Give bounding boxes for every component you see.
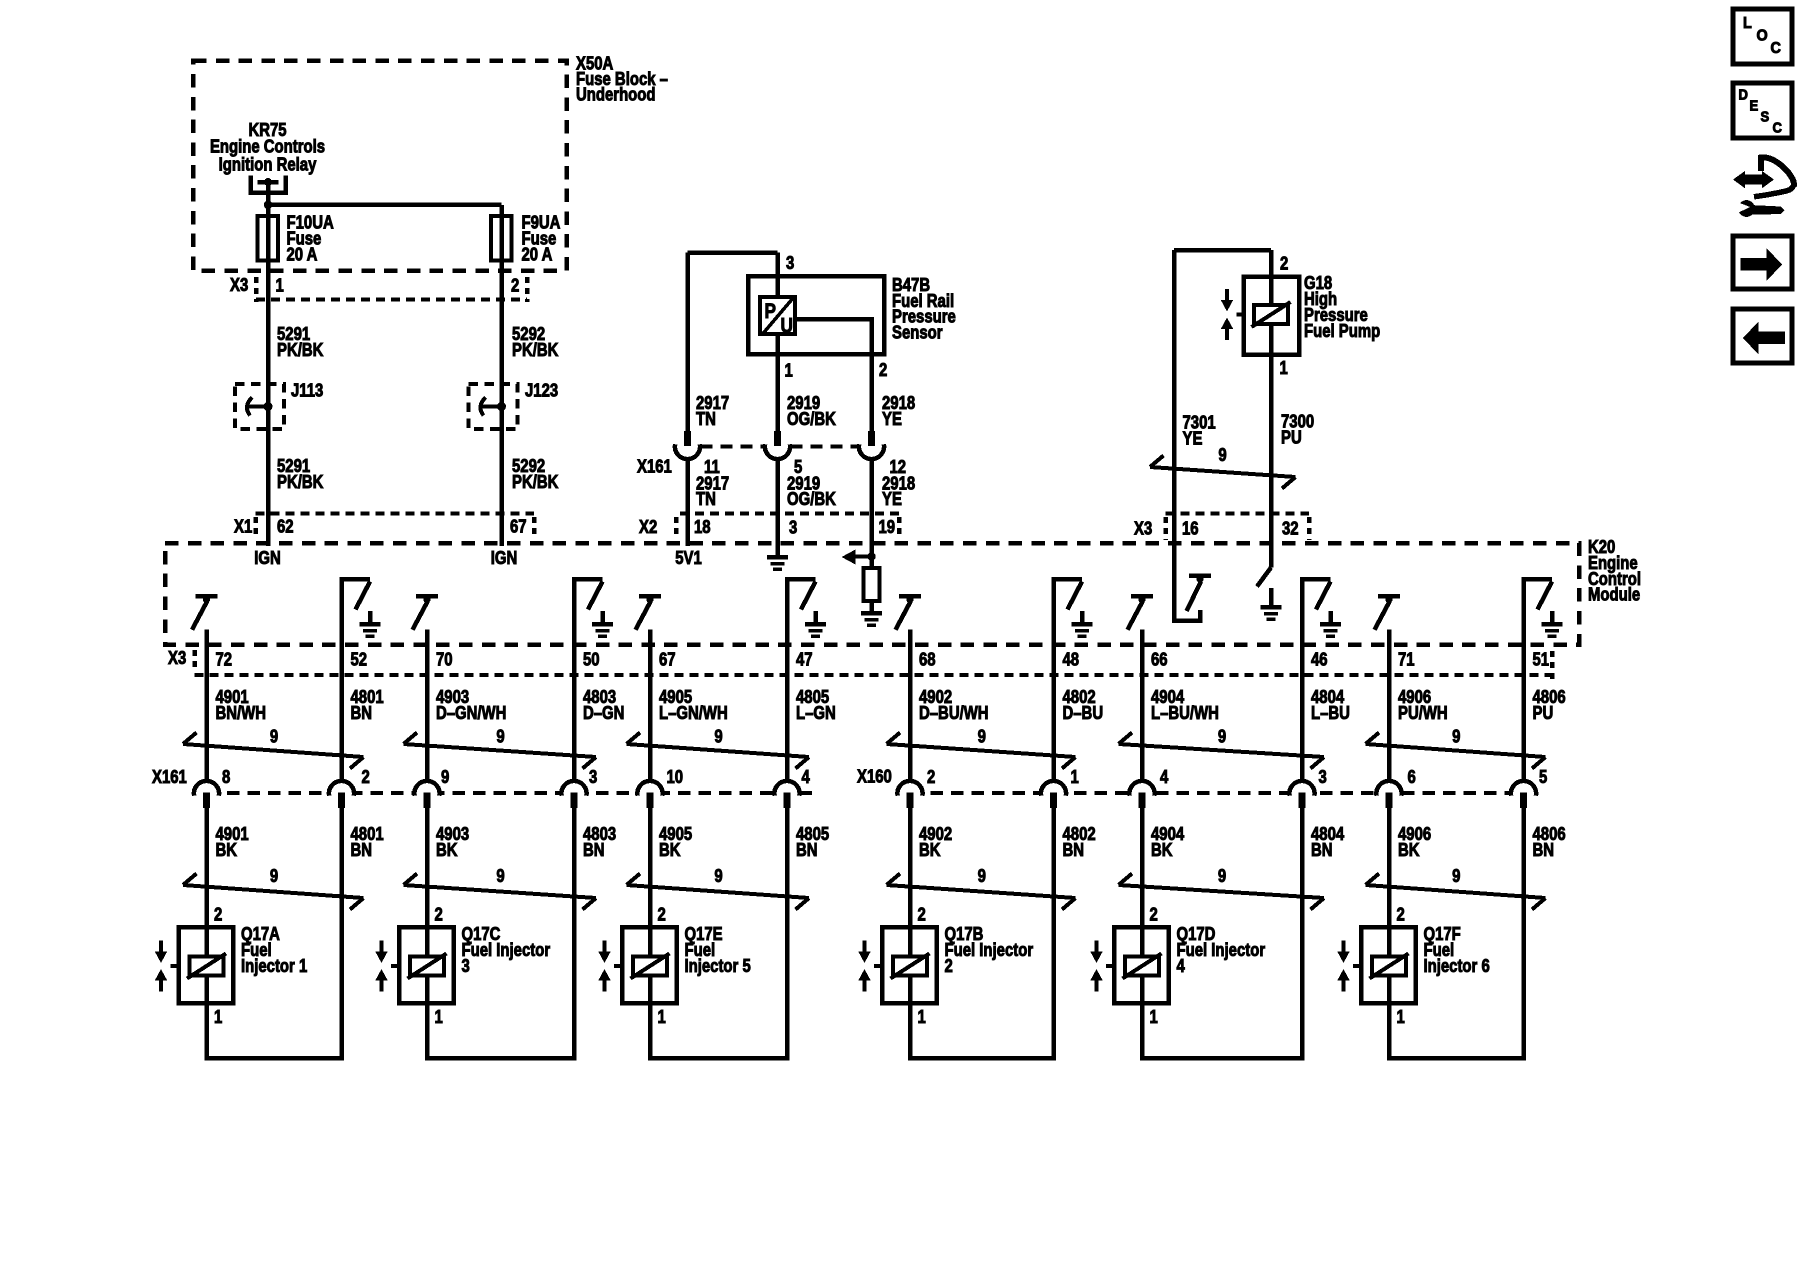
svg-text:D–GN: D–GN <box>583 702 624 723</box>
svg-text:X160: X160 <box>857 766 892 787</box>
connector arc pin 1 (return 4802) <box>1039 779 1067 798</box>
svg-text:70: 70 <box>436 649 453 670</box>
ECM internal ground switch for pin 51 <box>1521 579 1526 648</box>
svg-text:E: E <box>1750 98 1759 114</box>
harness crossing upper <box>627 744 810 757</box>
svg-text:D–GN/WH: D–GN/WH <box>436 702 506 723</box>
svg-text:3: 3 <box>1319 767 1327 788</box>
pump pintle valve arrows <box>1225 289 1229 301</box>
ECM internal pull resistor at pin X2-19 <box>864 568 880 601</box>
svg-text:X3: X3 <box>168 648 186 669</box>
svg-text:P: P <box>765 300 777 323</box>
harness crossing lower <box>1366 885 1546 898</box>
ECM internal driver switch for pin 66 <box>1131 594 1153 599</box>
svg-text:Injector 6: Injector 6 <box>1424 956 1490 977</box>
svg-text:PK/BK: PK/BK <box>277 472 323 493</box>
ECM K20 dashed border <box>165 543 1579 645</box>
harness crossing lower <box>404 885 597 898</box>
svg-text:IGN: IGN <box>491 548 518 569</box>
injector Q17B pintle valve arrows <box>863 941 867 953</box>
svg-text:Sensor: Sensor <box>892 322 943 343</box>
injector Q17F bottom return wire <box>1387 1056 1526 1061</box>
wire 4804 L–BU (ECM pin 46 down to connector) <box>1300 579 1305 782</box>
svg-text:50: 50 <box>583 649 600 670</box>
svg-text:72: 72 <box>216 649 233 670</box>
svg-text:1: 1 <box>658 1007 666 1028</box>
svg-text:2: 2 <box>511 275 519 296</box>
diagnostic link icon <box>1743 175 1766 185</box>
wire 4806 BN (connector down to injector bottom) <box>1521 794 1526 1061</box>
svg-text:2: 2 <box>435 904 443 925</box>
svg-text:2: 2 <box>1397 904 1405 925</box>
svg-text:5V1: 5V1 <box>675 548 702 569</box>
svg-text:1: 1 <box>214 1007 222 1028</box>
wire 4905 L–GN/WH (ECM pin 67 down to connector) <box>648 630 653 783</box>
svg-text:9: 9 <box>441 767 449 788</box>
svg-text:67: 67 <box>659 649 676 670</box>
svg-text:L: L <box>1743 14 1752 32</box>
harness crossing upper <box>404 744 597 757</box>
connector arc pin 4 (feed 4904) <box>1128 779 1156 798</box>
ECM internal driver switch for pin 68 <box>899 594 921 599</box>
svg-text:8: 8 <box>222 767 230 788</box>
sensor internal wire pin2 <box>795 319 872 437</box>
injector Q17B lead stub <box>874 964 882 968</box>
svg-text:16: 16 <box>1182 518 1199 539</box>
connector X161 (sensor) dashed row <box>701 445 765 449</box>
svg-text:62: 62 <box>277 516 294 537</box>
svg-text:S: S <box>1761 109 1770 125</box>
connector arc pin 5 (return 4806) <box>1509 779 1537 798</box>
svg-text:9: 9 <box>270 726 278 747</box>
svg-text:L–BU/WH: L–BU/WH <box>1151 702 1219 723</box>
connector arc pin 6 (feed 4906) <box>1375 779 1403 798</box>
svg-text:BN: BN <box>583 840 605 861</box>
harness crossing for pump wires <box>1150 467 1296 477</box>
svg-text:2: 2 <box>927 767 935 788</box>
svg-text:52: 52 <box>351 649 368 670</box>
svg-text:X161: X161 <box>152 767 187 788</box>
harness crossing lower <box>183 885 364 898</box>
harness crossing upper <box>1119 744 1325 757</box>
svg-text:66: 66 <box>1151 649 1168 670</box>
ECM connector X1 dotted row <box>256 512 535 516</box>
svg-text:2: 2 <box>214 904 222 925</box>
svg-text:BN: BN <box>351 840 373 861</box>
svg-text:2: 2 <box>1150 904 1158 925</box>
svg-text:47: 47 <box>796 649 813 670</box>
connector arc pin 10 (feed 4905) <box>636 779 664 798</box>
svg-text:YE: YE <box>882 409 902 430</box>
wire branch from relay to F9UA fuse <box>268 203 502 208</box>
svg-text:20 A: 20 A <box>287 244 318 265</box>
svg-text:10: 10 <box>667 767 684 788</box>
svg-text:Ignition Relay: Ignition Relay <box>219 154 317 175</box>
svg-text:9: 9 <box>496 726 504 747</box>
wire 4905 BK (connector down to injector) <box>648 794 653 1059</box>
svg-text:L–BU: L–BU <box>1311 702 1350 723</box>
svg-text:9: 9 <box>1452 865 1460 886</box>
connector arc pin 9 (feed 4903) <box>413 779 441 798</box>
sensor pin 3 wire <box>775 253 780 298</box>
injector Q17D lead stub <box>1106 964 1114 968</box>
svg-text:5: 5 <box>1539 767 1547 788</box>
harness crossing upper <box>887 744 1076 757</box>
svg-text:2: 2 <box>658 904 666 925</box>
svg-text:2: 2 <box>1280 253 1288 274</box>
injector Q17B bottom return wire <box>908 1056 1056 1061</box>
svg-text:1: 1 <box>1280 358 1288 379</box>
wire 2917 TN upper <box>685 253 690 438</box>
svg-text:3: 3 <box>789 517 797 538</box>
svg-text:1: 1 <box>785 360 793 381</box>
svg-text:BK: BK <box>919 840 941 861</box>
harness crossing upper <box>1366 744 1546 757</box>
svg-text:J123: J123 <box>525 380 558 401</box>
junction node on wire 5291 <box>264 201 272 209</box>
svg-text:2: 2 <box>945 956 953 977</box>
wire 4802 D–BU (ECM pin 48 down to connector) <box>1051 579 1056 782</box>
injector Q17A lead stub <box>171 964 179 968</box>
harness crossing lower <box>1119 885 1325 898</box>
wire 7300 PU vertical <box>1269 354 1274 568</box>
svg-text:PU: PU <box>1281 427 1302 448</box>
wire 5292 vertical (fuse F9UA to ECM pin X1-67) <box>499 205 504 546</box>
svg-text:1: 1 <box>276 275 284 296</box>
ECM internal node at pin X2-19 with arrow to other circuit <box>869 545 874 612</box>
svg-text:Fuel Injector: Fuel Injector <box>1177 940 1266 961</box>
injector Q17E pintle valve arrows <box>603 941 607 953</box>
connector arc pin 2 (feed 4902) <box>896 779 924 798</box>
svg-text:19: 19 <box>879 517 896 538</box>
fuse F9UA <box>491 216 512 261</box>
injector Q17A solenoid symbol <box>189 957 223 976</box>
svg-text:YE: YE <box>882 488 902 509</box>
svg-text:J113: J113 <box>291 380 323 401</box>
svg-text:PU: PU <box>1533 702 1554 723</box>
injector Q17C pintle valve arrows <box>380 941 384 953</box>
wire 4902 BK (connector down to injector) <box>908 794 913 1059</box>
fuel injector Q17C box <box>399 927 454 1003</box>
wire 4904 L–BU/WH (ECM pin 66 down to connector) <box>1140 630 1145 783</box>
pump lead stub <box>1237 313 1244 317</box>
svg-text:PK/BK: PK/BK <box>512 472 558 493</box>
splice J113 <box>235 384 284 429</box>
connector X3 (fuse block) dotted row <box>256 298 527 302</box>
fuel injector Q17E box <box>622 927 677 1003</box>
svg-text:9: 9 <box>496 865 504 886</box>
injector Q17A bottom return wire <box>204 1056 344 1061</box>
svg-text:1: 1 <box>1397 1007 1405 1028</box>
ECM internal driver switch for pin 67 <box>639 594 661 599</box>
svg-text:BK: BK <box>1398 840 1420 861</box>
fuel injector Q17B box <box>882 927 937 1003</box>
injector Q17F lead stub <box>1353 964 1361 968</box>
connector X161 terminal arcs for pins 11,5,12 <box>684 431 691 446</box>
icon button next page (right arrow) <box>1733 236 1792 289</box>
wire 4803 D–GN (ECM pin 50 down to connector) <box>572 579 577 782</box>
svg-text:9: 9 <box>270 865 278 886</box>
harness crossing upper <box>183 744 364 757</box>
connector arc pin 2 (return 4801) <box>327 779 355 798</box>
svg-text:X161: X161 <box>637 456 672 477</box>
svg-text:51: 51 <box>1533 649 1550 670</box>
fuel injector Q17F box <box>1361 927 1416 1003</box>
svg-text:L–GN: L–GN <box>796 702 836 723</box>
sensor B47B outer box <box>748 276 884 354</box>
svg-text:1: 1 <box>1150 1007 1158 1028</box>
svg-text:1: 1 <box>1071 767 1079 788</box>
connector arc pin 8 (feed 4901) <box>192 779 220 798</box>
svg-text:71: 71 <box>1398 649 1415 670</box>
wire 4801 BN (connector down to injector bottom) <box>339 794 344 1061</box>
injector Q17C bottom return wire <box>425 1056 577 1061</box>
wire 5291 vertical (relay to ECM pin X1-62) <box>266 182 271 546</box>
svg-text:48: 48 <box>1063 649 1080 670</box>
wire 4801 BN (ECM pin 52 down to connector) <box>339 579 344 782</box>
icon button DESC <box>1733 83 1792 138</box>
wire 4903 D–GN/WH (ECM pin 70 down to connector) <box>425 630 430 783</box>
svg-text:O: O <box>1757 27 1768 45</box>
svg-text:BK: BK <box>436 840 458 861</box>
svg-text:D: D <box>1739 87 1748 103</box>
harness crossing lower <box>627 885 810 898</box>
ECM connector X3 (top) dotted row <box>1166 512 1310 516</box>
wire 2917 lower + label <box>685 458 690 546</box>
icon button LOC <box>1733 9 1792 64</box>
svg-text:Injector 1: Injector 1 <box>241 956 307 977</box>
svg-text:4: 4 <box>1177 956 1186 977</box>
svg-text:OG/BK: OG/BK <box>787 488 836 509</box>
ECM internal ground switch for pin 52 <box>339 579 344 648</box>
svg-text:9: 9 <box>1218 865 1226 886</box>
svg-text:6: 6 <box>1408 767 1416 788</box>
pump solenoid symbol <box>1269 277 1274 354</box>
wire 2919 lower + label <box>775 458 780 546</box>
fuel injector Q17A box <box>179 927 234 1003</box>
fuse F10UA <box>257 216 278 261</box>
fuel pump G18 box <box>1244 277 1300 355</box>
wire 4906 PU/WH (ECM pin 71 down to connector) <box>1387 630 1392 783</box>
ECM connector X2 dotted row <box>680 512 899 516</box>
injector Q17F solenoid symbol <box>1372 957 1406 976</box>
svg-text:Underhood: Underhood <box>576 84 656 105</box>
wire 4802 BN (connector down to injector bottom) <box>1051 794 1056 1061</box>
svg-text:9: 9 <box>1218 726 1226 747</box>
svg-text:9: 9 <box>1452 726 1460 747</box>
svg-text:BN: BN <box>796 840 818 861</box>
svg-text:D–BU: D–BU <box>1063 702 1104 723</box>
svg-text:3: 3 <box>462 956 470 977</box>
svg-text:3: 3 <box>589 767 597 788</box>
svg-text:BN: BN <box>1063 840 1085 861</box>
svg-text:67: 67 <box>510 516 527 537</box>
injector Q17B solenoid symbol <box>893 957 927 976</box>
svg-text:X3: X3 <box>1134 518 1152 539</box>
svg-text:BK: BK <box>216 840 238 861</box>
injector Q17F pintle valve arrows <box>1342 941 1346 953</box>
sensor P/U transducer symbol <box>760 297 795 334</box>
icon button previous page (left arrow) <box>1733 309 1792 363</box>
wire 7301 YE vertical <box>1172 250 1177 618</box>
svg-text:9: 9 <box>978 865 986 886</box>
svg-text:46: 46 <box>1311 649 1328 670</box>
ECM internal ground below resistor <box>869 601 874 611</box>
svg-text:BK: BK <box>1151 840 1173 861</box>
ECM bottom connector dotted row <box>195 673 1553 677</box>
ECM internal ground at pin X2-3 <box>775 545 780 556</box>
pump top bridge wire <box>1174 248 1271 253</box>
injector Q17A pintle valve arrows <box>159 941 163 953</box>
ECM internal driver switch for pin 72 <box>196 594 218 599</box>
svg-text:BK: BK <box>659 840 681 861</box>
svg-text:2: 2 <box>918 904 926 925</box>
svg-text:X3: X3 <box>230 275 248 296</box>
ECM internal ground switch for pin 48 <box>1051 579 1056 648</box>
fuel injector Q17D box <box>1114 927 1169 1003</box>
svg-text:32: 32 <box>1282 518 1299 539</box>
svg-text:Module: Module <box>1588 584 1640 605</box>
wire 4903 BK (connector down to injector) <box>425 794 430 1059</box>
svg-text:PK/BK: PK/BK <box>512 340 558 361</box>
ECM internal driver switch for pin 71 <box>1378 594 1400 599</box>
svg-text:IGN: IGN <box>254 548 281 569</box>
sensor internal wire pin1 <box>775 334 780 437</box>
wire 4805 BN (connector down to injector bottom) <box>785 794 790 1061</box>
ECM internal driver switch for pin 70 <box>416 594 438 599</box>
wire 4805 L–GN (ECM pin 47 down to connector) <box>785 579 790 782</box>
ECM internal ground switch for pin 50 <box>572 579 577 648</box>
injector Q17C lead stub <box>391 964 399 968</box>
svg-text:9: 9 <box>1218 445 1226 466</box>
svg-text:4: 4 <box>1160 767 1169 788</box>
wire 4901 BN/WH (ECM pin 72 down to connector) <box>204 630 209 783</box>
ECM internal switch for pin X3-16 (7301) <box>1174 610 1200 621</box>
wire 4901 BK (connector down to injector) <box>204 794 209 1059</box>
svg-text:9: 9 <box>978 726 986 747</box>
svg-text:TN: TN <box>696 488 716 509</box>
svg-text:C: C <box>1771 39 1781 57</box>
wire 2918 lower + label <box>869 458 874 546</box>
relay KR75 contact symbol <box>251 176 286 193</box>
svg-text:D–BU/WH: D–BU/WH <box>919 702 989 723</box>
injector Q17E bottom return wire <box>648 1056 790 1061</box>
wire 4803 BN (connector down to injector bottom) <box>572 794 577 1061</box>
wire from sensor pin 3 top bridge <box>688 250 778 255</box>
injector Q17D pintle valve arrows <box>1095 941 1099 953</box>
ECM internal switch+ground for pin X3-32 (7300) <box>1257 568 1271 587</box>
svg-text:Fuel Injector: Fuel Injector <box>462 940 551 961</box>
svg-text:1: 1 <box>435 1007 443 1028</box>
svg-text:9: 9 <box>714 726 722 747</box>
svg-text:BN/WH: BN/WH <box>216 702 267 723</box>
wire 4902 D–BU/WH (ECM pin 68 down to connector) <box>908 630 913 783</box>
ECM internal ground switch for pin 47 <box>785 579 790 648</box>
wire 4904 BK (connector down to injector) <box>1140 794 1145 1059</box>
svg-text:18: 18 <box>694 517 711 538</box>
pump pin 2 wire <box>1269 250 1274 277</box>
ECM internal ground switch for pin 46 <box>1300 579 1305 648</box>
wire 4906 BK (connector down to injector) <box>1387 794 1392 1059</box>
svg-text:BN: BN <box>1533 840 1555 861</box>
svg-text:1: 1 <box>918 1007 926 1028</box>
connector arc pin 4 (return 4805) <box>773 779 801 798</box>
connector arc pin 3 (return 4804) <box>1288 779 1316 798</box>
svg-text:BN: BN <box>351 702 373 723</box>
svg-text:3: 3 <box>786 253 794 274</box>
svg-text:Injector 5: Injector 5 <box>685 956 751 977</box>
svg-text:68: 68 <box>919 649 936 670</box>
svg-text:YE: YE <box>1183 428 1203 449</box>
svg-text:Fuel Injector: Fuel Injector <box>945 940 1034 961</box>
injector Q17D solenoid symbol <box>1125 957 1159 976</box>
harness crossing lower <box>887 885 1076 898</box>
svg-text:2: 2 <box>362 767 370 788</box>
svg-text:4: 4 <box>802 767 811 788</box>
svg-text:2: 2 <box>879 360 887 381</box>
svg-text:BN: BN <box>1311 840 1333 861</box>
svg-text:OG/BK: OG/BK <box>787 409 836 430</box>
svg-text:U: U <box>781 315 793 338</box>
svg-text:PK/BK: PK/BK <box>277 340 323 361</box>
svg-text:Fuel Pump: Fuel Pump <box>1304 321 1380 342</box>
svg-text:X1: X1 <box>234 516 252 537</box>
wire 4806 PU (ECM pin 51 down to connector) <box>1521 579 1526 782</box>
injector Q17E solenoid symbol <box>633 957 667 976</box>
injector Q17D bottom return wire <box>1140 1056 1305 1061</box>
svg-text:20 A: 20 A <box>522 244 553 265</box>
svg-text:C: C <box>1773 120 1782 136</box>
splice J123 <box>469 384 518 429</box>
svg-text:9: 9 <box>714 865 722 886</box>
connector arc pin 3 (return 4803) <box>560 779 588 798</box>
svg-text:X2: X2 <box>639 517 657 538</box>
svg-text:TN: TN <box>696 409 716 430</box>
svg-text:PU/WH: PU/WH <box>1398 702 1448 723</box>
injector Q17C solenoid symbol <box>410 957 444 976</box>
fuse block X50A dashed border <box>193 61 567 271</box>
svg-text:L–GN/WH: L–GN/WH <box>659 702 728 723</box>
injector Q17E lead stub <box>614 964 622 968</box>
wire 4804 BN (connector down to injector bottom) <box>1300 794 1305 1061</box>
